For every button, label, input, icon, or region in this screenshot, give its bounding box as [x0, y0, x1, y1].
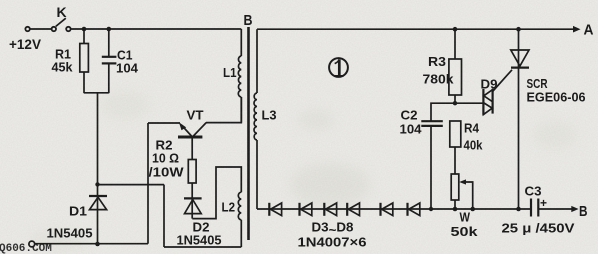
wire R1/C1 bottom join	[84, 92, 109, 94]
wire bottom rail right part	[164, 246, 241, 248]
diode D3	[269, 203, 281, 216]
diode D2	[184, 198, 202, 213]
wire top rail left	[71, 28, 242, 30]
resistor R1	[80, 29, 89, 93]
junction C1 top	[107, 27, 112, 32]
wire secondary bottom rail	[257, 208, 531, 210]
diode D9 diac	[483, 89, 492, 115]
wire collector to L1	[206, 97, 241, 123]
wire D2 to L2 top	[192, 167, 241, 219]
diode D4	[300, 203, 312, 216]
arrow B output	[571, 206, 578, 212]
junction SCR bottom	[516, 207, 521, 212]
wire bottom rail left part	[35, 243, 149, 245]
resistor R2	[188, 160, 196, 219]
diode D8	[408, 203, 420, 216]
capacitor C3	[531, 199, 572, 217]
junction R3 bottom	[453, 101, 457, 105]
capacitor C2	[421, 121, 443, 209]
junction SCR top	[516, 27, 521, 32]
wire x164 down	[163, 185, 165, 247]
thyristor SCR	[493, 29, 529, 209]
wire center drop	[97, 93, 99, 185]
junction node	[95, 182, 99, 186]
inductor L2	[238, 192, 241, 247]
transformer core	[247, 27, 250, 240]
switch K	[52, 18, 71, 31]
resistor R3	[449, 29, 462, 103]
wire node to x164	[98, 184, 165, 186]
junction C2 bottom	[429, 207, 433, 211]
wire top rail right	[257, 28, 573, 30]
junction R1 top	[82, 27, 87, 32]
junction wiper bottom	[470, 207, 475, 212]
potentiometer W	[451, 174, 473, 209]
diode D6	[347, 203, 359, 216]
wire x148 vertical	[147, 123, 149, 244]
wire node103 C2 to D9	[431, 103, 483, 121]
diode D7	[381, 203, 393, 216]
wire battery to switch	[30, 28, 52, 30]
inductor L3	[254, 29, 257, 209]
junction pot bottom	[453, 207, 458, 212]
junction D1 bottom	[95, 242, 100, 247]
resistor R4	[450, 121, 461, 174]
arrow A	[573, 26, 581, 33]
label circled 1	[329, 58, 348, 77]
diode D1	[89, 185, 107, 244]
node bottom terminal	[29, 241, 35, 247]
wire emitter	[148, 122, 180, 124]
diode D5	[324, 203, 336, 216]
capacitor C1	[102, 29, 117, 93]
inductor L1	[238, 29, 241, 123]
node +12V terminal	[25, 27, 29, 31]
junction R3 top	[453, 27, 458, 32]
transistor VT	[178, 122, 206, 159]
